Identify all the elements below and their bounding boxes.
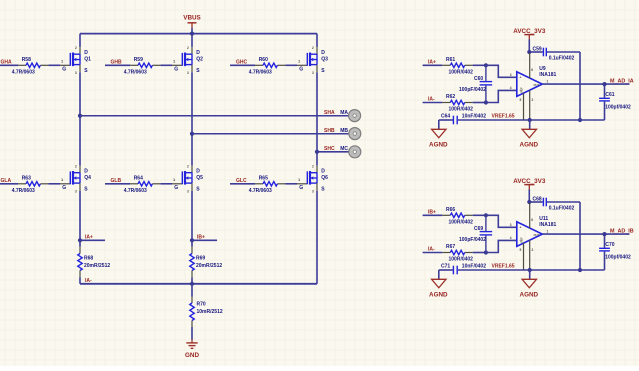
ground GND: [191, 340, 193, 343]
junction: [190, 238, 194, 242]
junction: [484, 213, 488, 217]
ground AGND: [522, 279, 536, 288]
svg-text:1: 1: [547, 229, 549, 233]
junction: [527, 200, 531, 204]
svg-text:5: 5: [520, 98, 522, 102]
capacitor C68: [529, 201, 543, 203]
resistor R67: [442, 252, 450, 254]
junction: [602, 232, 606, 236]
svg-text:G: G: [299, 185, 303, 191]
svg-text:R70: R70: [197, 301, 206, 307]
svg-text:C69: C69: [474, 226, 483, 232]
svg-text:R66: R66: [446, 207, 455, 213]
svg-text:R69: R69: [196, 255, 205, 261]
junction: [527, 50, 531, 54]
capacitor C61: [604, 84, 606, 98]
resistor R62: [442, 102, 450, 104]
wire: [230, 64, 255, 66]
wire: [48, 183, 60, 185]
wire phase B leg: [191, 34, 193, 47]
svg-text:D: D: [84, 50, 88, 56]
svg-text:G: G: [299, 66, 303, 72]
svg-text:3: 3: [312, 71, 314, 75]
resistor R68: [79, 240, 81, 246]
wire: [473, 64, 487, 66]
svg-text:G: G: [174, 66, 178, 72]
svg-text:R58: R58: [22, 57, 31, 63]
svg-text:Q5: Q5: [196, 175, 203, 181]
svg-text:6: 6: [531, 68, 533, 72]
wire phase C leg: [316, 34, 318, 47]
svg-text:R67: R67: [446, 244, 455, 250]
svg-text:VREF1.65: VREF1.65: [492, 114, 515, 120]
wire: [438, 270, 440, 279]
wire: [80, 115, 349, 117]
svg-text:MA: MA: [340, 110, 348, 116]
wire: [423, 64, 443, 66]
svg-text:4.7R/0603: 4.7R/0603: [249, 188, 272, 194]
wire: [285, 64, 297, 66]
svg-text:6: 6: [531, 218, 533, 222]
svg-text:MB: MB: [340, 128, 348, 134]
svg-text:M_AD_IB: M_AD_IB: [610, 228, 634, 234]
svg-text:D: D: [321, 169, 325, 175]
svg-text:C68: C68: [533, 197, 542, 203]
svg-text:5: 5: [520, 248, 522, 252]
svg-text:4.7R/0603: 4.7R/0603: [124, 70, 147, 76]
wire: [542, 233, 629, 235]
wire: [529, 120, 531, 129]
transistor Q4: [79, 165, 81, 173]
svg-text:2: 2: [75, 165, 77, 169]
op-amp U11: [517, 222, 543, 247]
wire: [0, 183, 18, 185]
resistor R61: [442, 64, 450, 66]
wire phase A leg: [79, 34, 81, 47]
wire: [423, 214, 443, 216]
junction: [78, 238, 82, 242]
wire: [473, 252, 487, 254]
pad MC: [349, 146, 361, 158]
svg-text:10mR/2512: 10mR/2512: [197, 309, 223, 315]
capacitor C69: [485, 215, 487, 231]
wire: [579, 202, 581, 270]
junction: [578, 268, 582, 272]
transistor Q5: [191, 165, 193, 173]
svg-text:INA181: INA181: [539, 222, 556, 228]
wire: [423, 102, 443, 104]
resistor R69: [191, 240, 193, 246]
resistor R59: [130, 64, 138, 66]
svg-text:R60: R60: [259, 57, 268, 63]
svg-text:10nF/0402: 10nF/0402: [462, 114, 486, 120]
svg-text:AGND: AGND: [429, 292, 448, 299]
svg-text:100R/0402: 100R/0402: [449, 257, 474, 263]
svg-text:4: 4: [510, 236, 512, 240]
svg-text:2: 2: [187, 165, 189, 169]
wire: [528, 40, 530, 53]
svg-text:VBUS: VBUS: [183, 15, 201, 22]
wire VREF1.65 rail: [439, 269, 453, 271]
svg-text:MC: MC: [340, 146, 348, 152]
resistor R66: [442, 214, 450, 216]
wire: [105, 64, 130, 66]
ground AGND: [432, 279, 446, 288]
svg-text:100pf/0402: 100pf/0402: [605, 105, 631, 111]
resistor R64: [130, 183, 138, 185]
svg-text:D: D: [321, 50, 325, 56]
junction: [484, 63, 488, 67]
svg-text:+: +: [520, 225, 522, 229]
svg-text:100pF/0402: 100pF/0402: [459, 87, 486, 93]
svg-text:R61: R61: [446, 57, 455, 63]
svg-text:AGND: AGND: [520, 142, 539, 149]
junction: [602, 82, 606, 86]
resistor R58: [18, 64, 26, 66]
svg-text:REF: REF: [520, 237, 524, 243]
svg-text:4.7R/0603: 4.7R/0603: [12, 70, 35, 76]
junction: [78, 114, 82, 118]
wire: [486, 65, 517, 77]
svg-text:1: 1: [547, 79, 549, 83]
svg-text:4.7R/0603: 4.7R/0603: [12, 188, 35, 194]
svg-text:D: D: [196, 50, 200, 56]
ground AGND: [522, 129, 536, 138]
wire: [191, 28, 193, 34]
resistor R65: [255, 183, 263, 185]
wire: [528, 190, 530, 203]
svg-text:100R/0402: 100R/0402: [449, 220, 474, 226]
transistor Q3: [316, 47, 318, 55]
svg-text:100pF/0402: 100pF/0402: [459, 237, 486, 243]
svg-text:20mR/2512: 20mR/2512: [196, 263, 222, 269]
junction: [528, 118, 532, 122]
svg-text:C64: C64: [441, 114, 450, 120]
wire VREF1.65 rail: [439, 119, 453, 121]
svg-text:OUT: OUT: [534, 233, 540, 237]
wire: [192, 239, 217, 241]
svg-text:IB+: IB+: [197, 234, 205, 240]
svg-text:D: D: [196, 169, 200, 175]
svg-text:VREF1.65: VREF1.65: [492, 264, 515, 270]
wire: [473, 214, 487, 216]
svg-text:3: 3: [510, 223, 512, 227]
wire: [0, 64, 18, 66]
svg-text:OUT: OUT: [534, 83, 540, 87]
svg-text:R59: R59: [134, 57, 143, 63]
svg-text:0.1uF/0402: 0.1uF/0402: [549, 206, 575, 212]
pad MA: [349, 110, 361, 122]
svg-text:2: 2: [532, 98, 534, 102]
svg-text:4.7R/0603: 4.7R/0603: [249, 70, 272, 76]
svg-text:Q3: Q3: [321, 56, 328, 62]
wire: [542, 83, 629, 85]
wire: [529, 270, 531, 279]
junction: [484, 250, 488, 254]
svg-text:2: 2: [532, 248, 534, 252]
svg-text:2: 2: [312, 46, 314, 50]
svg-text:3: 3: [75, 189, 77, 193]
svg-text:2: 2: [312, 165, 314, 169]
svg-text:G: G: [174, 185, 178, 191]
svg-text:3: 3: [187, 189, 189, 193]
svg-text:4.7R/0603: 4.7R/0603: [124, 188, 147, 194]
svg-text:INA181: INA181: [539, 72, 556, 78]
svg-text:Q1: Q1: [84, 56, 91, 62]
wire: [230, 183, 255, 185]
capacitor C71: [452, 266, 454, 275]
junction: [190, 282, 194, 286]
svg-text:4: 4: [510, 86, 512, 90]
svg-text:Q2: Q2: [196, 56, 203, 62]
svg-text:20mR/2512: 20mR/2512: [84, 263, 110, 269]
svg-text:3: 3: [510, 73, 512, 77]
svg-text:AGND: AGND: [520, 292, 539, 299]
svg-text:100R/0402: 100R/0402: [449, 70, 474, 76]
pad MB: [349, 128, 361, 140]
ground AGND: [432, 129, 446, 138]
svg-text:10nF/0402: 10nF/0402: [462, 264, 486, 270]
wire VBUS top rail: [80, 33, 317, 35]
svg-text:R65: R65: [259, 176, 268, 182]
svg-text:R63: R63: [22, 176, 31, 182]
junction: [484, 100, 488, 104]
svg-text:3: 3: [312, 189, 314, 193]
capacitor C64: [452, 116, 454, 125]
svg-text:C59: C59: [533, 47, 542, 53]
svg-text:Q6: Q6: [321, 175, 328, 181]
junction: [528, 268, 532, 272]
svg-text:3: 3: [187, 71, 189, 75]
svg-text:3: 3: [75, 71, 77, 75]
wire: [473, 102, 487, 104]
svg-text:C71: C71: [441, 264, 450, 270]
wire: [192, 133, 349, 135]
svg-text:C60: C60: [474, 76, 483, 82]
capacitor C70: [604, 234, 606, 248]
wire: [105, 183, 130, 185]
resistor R63: [18, 183, 26, 185]
junction: [578, 118, 582, 122]
svg-text:100pf/0402: 100pf/0402: [605, 255, 631, 261]
wire: [486, 215, 517, 227]
svg-text:2: 2: [187, 46, 189, 50]
capacitor C59: [529, 51, 543, 53]
svg-text:M_AD_IA: M_AD_IA: [610, 78, 634, 84]
wire: [285, 183, 297, 185]
svg-text:R64: R64: [134, 176, 143, 182]
wire: [486, 240, 517, 252]
wire: [317, 151, 349, 153]
svg-text:+: +: [520, 75, 522, 79]
svg-text:Q4: Q4: [84, 175, 91, 181]
transistor Q1: [79, 47, 81, 55]
wire: [160, 183, 172, 185]
svg-text:D: D: [84, 169, 88, 175]
svg-text:100R/0402: 100R/0402: [449, 107, 474, 113]
svg-text:R68: R68: [84, 255, 93, 261]
wire: [438, 120, 440, 129]
transistor Q2: [191, 47, 193, 55]
resistor R70: [191, 284, 193, 297]
svg-text:2: 2: [75, 46, 77, 50]
transistor Q6: [316, 165, 318, 173]
wire: [48, 64, 60, 66]
resistor R60: [255, 64, 263, 66]
wire: [486, 90, 517, 102]
junction: [190, 31, 194, 35]
op-amp U9: [517, 72, 543, 97]
svg-text:G: G: [62, 66, 66, 72]
svg-text:0.1uF/0402: 0.1uF/0402: [549, 56, 575, 62]
svg-text:G: G: [62, 185, 66, 191]
wire: [80, 239, 105, 241]
svg-text:REF: REF: [520, 87, 524, 93]
wire: [579, 52, 581, 120]
svg-text:C61: C61: [605, 92, 614, 98]
wire IA- rail: [80, 283, 317, 285]
svg-text:GND: GND: [185, 352, 199, 359]
svg-text:IA+: IA+: [85, 234, 93, 240]
junction: [190, 132, 194, 136]
wire: [160, 64, 172, 66]
svg-text:C70: C70: [605, 242, 614, 248]
junction: [315, 150, 319, 154]
svg-text:R62: R62: [446, 94, 455, 100]
capacitor C60: [485, 65, 487, 81]
svg-text:AGND: AGND: [429, 142, 448, 149]
wire: [423, 252, 443, 254]
